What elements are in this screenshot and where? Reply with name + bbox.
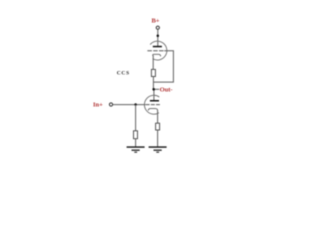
triode V2 cathode [148,109,157,111]
wire V2 cathode to R3 [157,110,159,123]
wire R3 to ground [157,130,159,147]
wire R2 to ground [135,139,137,147]
wire B+ to V1 plate [157,29,159,46]
node Out- junction dot [152,88,155,91]
wire R1 to Out- node [152,77,154,90]
terminal In+ [109,103,112,106]
terminal B+ [156,26,159,29]
svg-text:In+: In+ [93,101,103,108]
svg-text:Out-: Out- [160,86,173,93]
resistor R3 [156,123,160,130]
wire stub to Out- label [155,88,159,90]
triode V2 grid [146,104,160,106]
triode V1 plate [153,46,162,48]
wire junction to R2 [135,105,137,131]
svg-text:B+: B+ [151,18,159,25]
triode V2 envelope [144,95,159,114]
triode V1 grid [147,50,163,52]
triode V1 envelope [150,41,167,60]
resistor R1 [151,69,155,76]
svg-text:CCS: CCS [117,70,130,76]
ground GND2 [149,147,167,152]
wire Out- to V2 plate [153,91,155,101]
resistor R2 [134,131,138,139]
wire In+ to V2 grid [113,104,146,106]
triode V2 plate [150,100,159,102]
junction dot on B+ lead [157,35,160,38]
ground GND1 [127,147,145,152]
junction dot on In+ wire [134,103,137,106]
wire V1 cathode to R1 [152,55,154,69]
triode V1 cathode [153,54,161,56]
wire V1 grid to feedback loop [153,51,173,82]
